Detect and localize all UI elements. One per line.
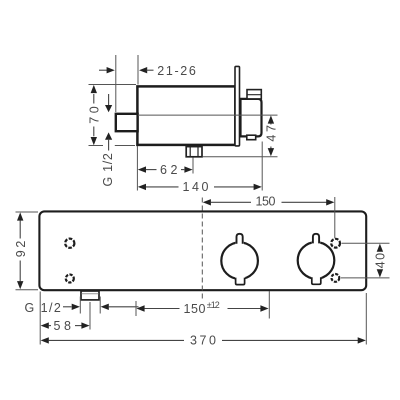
dim 370 arrows + line	[41, 337, 366, 343]
dim 92 top ext	[16, 211, 39, 213]
outlet nut under body	[186, 147, 202, 157]
body side view	[137, 86, 235, 144]
dim 21-26 right ext line	[137, 55, 139, 85]
knob 1 circle	[221, 242, 258, 279]
dim 21-26 right arrow	[139, 67, 154, 73]
knob 2 bottom tab	[311, 276, 321, 284]
port bottom-right (dashed)	[332, 274, 340, 282]
dashed center line	[201, 198, 203, 301]
knob bottom tab	[247, 135, 256, 140]
knob (side)	[241, 99, 262, 136]
centerline pipe-top extension (47 top ext)	[138, 114, 278, 116]
dim 150 (top) right ext	[334, 197, 336, 238]
dim 150±12 arrows + line	[136, 305, 268, 311]
dim 140 right ext (knob front extended)	[261, 142, 263, 191]
dim 92 bottom ext	[16, 289, 39, 291]
svg-text:G 1/2: G 1/2	[25, 301, 63, 315]
dim 150±12 right ext	[268, 291, 270, 319]
G 1/2 arrows (front view)	[63, 304, 139, 310]
knob 1 stem	[235, 234, 243, 245]
front panel	[39, 211, 366, 290]
knob 2 stem	[312, 234, 320, 245]
port top-right (dashed)	[331, 239, 340, 248]
dim 150±12 left ext	[135, 301, 137, 316]
dim 92 line + arrows	[17, 212, 23, 289]
dim 40 top ext	[342, 242, 390, 244]
dim 370 right ext (panel right extended)	[365, 293, 367, 345]
svg-text:±12: ±12	[207, 300, 221, 310]
svg-text:92: 92	[14, 239, 28, 257]
dim 62 right ext (outlet center)	[192, 158, 194, 174]
knob 2 circle	[298, 242, 335, 279]
dim 70 line + arrows	[91, 85, 97, 145]
svg-text:140: 140	[183, 180, 211, 194]
dim 21-26 left arrow	[99, 67, 115, 73]
svg-text:370: 370	[190, 334, 218, 348]
G 1/2 ext lines (front view outlet)	[79, 297, 81, 314]
svg-text:150: 150	[184, 302, 208, 316]
hose outlet below panel	[81, 291, 99, 300]
dim 47 line + arrows	[268, 115, 274, 156]
wall plate	[235, 66, 240, 145]
dim 58 right ext (outlet center)	[89, 302, 91, 330]
svg-text:21-26: 21-26	[157, 64, 197, 78]
knob 1 bottom tab	[235, 277, 245, 285]
dim 40 bottom ext	[341, 277, 390, 279]
screw hole bottom-left (dashed)	[66, 275, 74, 283]
dim 47 bottom ext	[203, 156, 278, 158]
knob top tab	[247, 90, 261, 99]
dim 150 (top) arrows + line	[203, 199, 335, 205]
dim 62 arrows + line	[138, 166, 193, 172]
dim 40 arrows	[377, 244, 383, 278]
G1/2 pipe dia arrows (side view)	[105, 94, 112, 151]
svg-text:40: 40	[374, 251, 388, 268]
dim 58 left ext (panel left extended)	[39, 292, 41, 345]
dim 21-26 left ext line	[115, 55, 117, 112]
svg-text:47: 47	[265, 124, 279, 142]
screw hole top-left (dashed)	[65, 239, 74, 248]
dim 140 arrows + line	[138, 184, 262, 190]
svg-text:G 1/2: G 1/2	[101, 152, 115, 187]
G1/2 wall connector protrusion	[116, 114, 138, 131]
dim 58 arrows + line	[41, 322, 90, 328]
dim 62 left ext (body left edge extended)	[136, 146, 138, 191]
svg-text:150: 150	[256, 195, 278, 209]
dim 70 top ext	[89, 84, 137, 86]
dim 70 bottom ext	[89, 145, 104, 147]
